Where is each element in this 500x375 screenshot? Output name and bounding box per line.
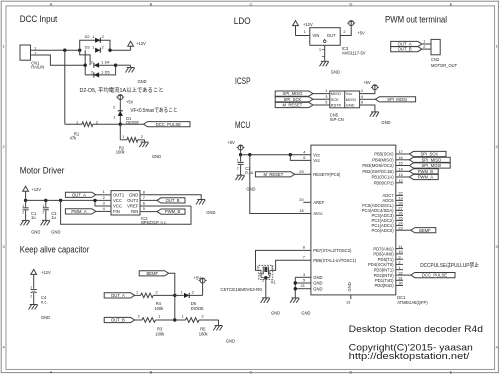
power +12V motor [23, 186, 42, 200]
svg-text:1: 1 [92, 44, 94, 49]
capacitor C3 1u [43, 200, 58, 220]
wire vcc pin6 step [290, 155, 311, 161]
node bridge right bottom [114, 63, 117, 66]
net label OUT_B keepalive [104, 317, 134, 322]
svg-text:1u: 1u [51, 215, 56, 220]
svg-text:SPI_MOSI: SPI_MOSI [387, 97, 407, 102]
regulator IC3 AMS1117 [310, 28, 366, 56]
svg-text:R3: R3 [157, 326, 163, 331]
svg-text:OUT_A: OUT_A [111, 293, 125, 298]
wire resonator gnd [265, 278, 267, 296]
net label M_RESET icsp [275, 102, 313, 107]
svg-text:CN2: CN2 [431, 57, 440, 62]
wire rst to CN5 [313, 100, 330, 105]
svg-text:+5V: +5V [363, 80, 371, 85]
svg-text:2: 2 [156, 289, 158, 294]
svg-text:+5V: +5V [194, 276, 202, 281]
svg-text:D: D [350, 1, 353, 6]
svg-text:2: 2 [30, 294, 32, 298]
svg-text:GND: GND [246, 187, 255, 192]
wire IC2 rin pin5 [140, 206, 157, 211]
node DCC pulse junction [119, 123, 122, 126]
svg-text:1: 1 [304, 29, 306, 34]
svg-text:2: 2 [202, 314, 204, 319]
node junction at R1 tap [63, 49, 66, 52]
svg-text:2: 2 [22, 211, 24, 215]
power +12V LDO [293, 21, 313, 36]
wire bridge step [80, 50, 90, 65]
svg-text:DCC_PULSE: DCC_PULSE [156, 122, 181, 127]
svg-text:3: 3 [303, 272, 305, 277]
svg-text:100k: 100k [199, 332, 209, 337]
wire outb to CN2 [422, 44, 431, 49]
wire R1 drop vertical [64, 50, 66, 124]
net label BEMF keepalive [139, 271, 168, 276]
svg-text:AMS1117-5V: AMS1117-5V [342, 50, 366, 55]
svg-text:+12V: +12V [303, 22, 313, 27]
svg-text:GND: GND [313, 286, 322, 291]
svg-text:D5: D5 [105, 69, 110, 74]
wire BEMF down [169, 273, 175, 295]
wire D3 to +12V node [110, 49, 131, 51]
power +5V LDO [347, 21, 365, 36]
node resonator gnd [264, 276, 267, 279]
svg-text:PB7(XTAL2/TOSC2): PB7(XTAL2/TOSC2) [313, 248, 352, 253]
svg-text:PD6(AIN0): PD6(AIN0) [373, 252, 394, 257]
svg-text:Vcc: Vcc [313, 158, 320, 163]
svg-text:1: 1 [101, 60, 103, 65]
svg-text:Desktop Station decoder R4d: Desktop Station decoder R4d [349, 324, 483, 334]
svg-text:GND: GND [129, 192, 138, 197]
ground R5 [213, 320, 235, 343]
svg-text:PD0(RxD): PD0(RxD) [375, 283, 395, 288]
wire CN1 pin1 to bridge [31, 49, 80, 51]
ground C3 [41, 218, 61, 234]
svg-text:GND: GND [381, 120, 390, 125]
svg-text:GND: GND [346, 103, 355, 108]
svg-text:RST#: RST# [331, 103, 342, 108]
svg-text:1: 1 [237, 158, 239, 162]
svg-text:23: 23 [398, 225, 402, 230]
svg-text:M_RESET: M_RESET [264, 172, 284, 177]
node mcu 5v bus [239, 153, 242, 156]
svg-text:13: 13 [398, 172, 402, 177]
net label PWM_A mcu [409, 174, 438, 179]
diode D5 [91, 69, 110, 77]
wire motor vcc bus [26, 199, 111, 201]
svg-text:GND: GND [51, 229, 60, 234]
svg-text:MISO: MISO [331, 91, 341, 96]
svg-text:PWM_B: PWM_B [165, 209, 181, 214]
svg-text:OUT2: OUT2 [127, 198, 139, 203]
svg-text:AREF: AREF [313, 200, 325, 205]
net label SPI_MISO icsp [275, 91, 313, 96]
svg-text:2: 2 [43, 211, 45, 215]
svg-text:SPI_MOSI: SPI_MOSI [422, 163, 442, 168]
wire CN5 mosi pin4 [360, 94, 376, 99]
svg-text:6: 6 [361, 100, 363, 105]
text copyright [349, 342, 473, 352]
svg-text:2: 2 [96, 120, 98, 125]
net label M_RESET mcu [255, 172, 294, 177]
svg-text:100k: 100k [155, 332, 165, 337]
wire R2 drop [119, 124, 121, 140]
svg-text:PD3(INT1): PD3(INT1) [374, 267, 395, 272]
svg-text:D2: D2 [85, 34, 90, 39]
ground R2 [139, 140, 161, 159]
svg-text:2: 2 [91, 60, 93, 65]
svg-text:13: 13 [346, 300, 350, 305]
svg-text:ISP-CN: ISP-CN [330, 117, 344, 122]
svg-text:2: 2 [262, 279, 264, 283]
svg-text:1: 1 [181, 289, 183, 294]
power +5V mcu [227, 140, 244, 155]
svg-text:1: 1 [76, 120, 78, 125]
svg-text:ATMEGA8(QFP): ATMEGA8(QFP) [397, 300, 428, 305]
svg-text:Vcc: Vcc [346, 91, 353, 96]
svg-text:GND: GND [271, 310, 280, 315]
svg-text:2: 2 [192, 289, 194, 294]
title Keep alive capacitor [20, 244, 90, 255]
svg-text:5: 5 [143, 206, 145, 211]
ground C1 [20, 218, 40, 234]
wire D2 loop [80, 40, 110, 50]
text url [349, 351, 470, 361]
net label SPI_SCK icsp [275, 97, 313, 102]
wire OUT_A to IC2 [96, 189, 111, 195]
svg-text:2: 2 [398, 260, 400, 265]
svg-text:1: 1 [43, 204, 45, 208]
svg-text:1: 1 [257, 266, 259, 270]
node avcc tap [248, 153, 251, 156]
pin AREF stub [299, 197, 311, 202]
net label SPI_MOSI icsp [375, 97, 415, 102]
svg-text:BEMF: BEMF [419, 228, 431, 233]
svg-text:OUT1: OUT1 [113, 192, 125, 197]
svg-text:+5V: +5V [126, 99, 134, 104]
svg-text:1u: 1u [31, 215, 36, 220]
text document title [349, 324, 483, 334]
svg-text:SPI_MISO: SPI_MISO [283, 91, 304, 96]
wire reset to mcu [295, 169, 311, 174]
svg-text:RIN: RIN [131, 209, 138, 214]
svg-text:PWM_B: PWM_B [418, 169, 434, 174]
svg-text:47k: 47k [70, 136, 78, 141]
power +12V bridge [128, 41, 146, 50]
svg-text:PD4(XCK/T0): PD4(XCK/T0) [368, 262, 394, 267]
svg-text:GND: GND [152, 154, 161, 159]
svg-text:6: 6 [143, 201, 145, 206]
title PWM out terminal [385, 14, 447, 25]
capacitor C1 1u [22, 200, 37, 220]
wire pin3 step [93, 199, 111, 206]
svg-text:n.c.: n.c. [41, 300, 48, 305]
power +12V keepalive [31, 269, 51, 275]
ground C4 [29, 302, 51, 320]
diode D3 inline [85, 44, 104, 53]
title Motor Driver [20, 165, 65, 176]
svg-text:PB1(OC1A): PB1(OC1A) [371, 175, 394, 180]
svg-text:11: 11 [398, 244, 402, 249]
wire D5 loop [85, 65, 115, 75]
svg-text:GND: GND [41, 315, 50, 320]
net label OUT_A motor [65, 192, 95, 197]
svg-text:VCC: VCC [113, 204, 122, 209]
node bridge right top [108, 49, 111, 52]
wire avcc [250, 155, 311, 214]
svg-text:GND: GND [313, 281, 322, 286]
svg-text:B: B [150, 370, 153, 375]
svg-text:2: 2 [141, 134, 143, 139]
wire CN5 vcc pin2 [360, 88, 375, 93]
mcu DC1 ATMEGA8 [311, 145, 428, 305]
svg-text:SCK: SCK [331, 97, 339, 102]
svg-text:100k: 100k [154, 306, 164, 311]
svg-text:GND: GND [331, 70, 340, 75]
wire CN5 gnd pin6 [360, 100, 375, 110]
svg-text:1: 1 [92, 34, 94, 39]
note DCC pullup [420, 261, 479, 269]
svg-text:2: 2 [237, 166, 239, 170]
svg-text:GND: GND [31, 229, 40, 234]
ground bridge [125, 65, 146, 84]
svg-text:+5V: +5V [227, 140, 235, 145]
svg-text:VCC: VCC [113, 198, 122, 203]
svg-text:MOTOR_OUT: MOTOR_OUT [431, 63, 458, 68]
svg-text:OUT_B: OUT_B [398, 47, 412, 52]
diode D1 [113, 102, 139, 125]
svg-text:A: A [50, 370, 53, 375]
svg-text:OUT: OUT [327, 33, 336, 38]
svg-text:PD7(AIN1): PD7(AIN1) [373, 246, 394, 251]
net label SPI_SCK mcu [409, 151, 446, 156]
svg-text:2: 2 [343, 29, 345, 34]
svg-text:8: 8 [143, 189, 145, 194]
svg-text:MCU: MCU [235, 120, 250, 131]
svg-text:C: C [250, 1, 253, 6]
mcu bottom gnd stub [346, 295, 351, 305]
net label SPI_MISO mcu [409, 157, 450, 162]
svg-text:2: 2 [91, 69, 93, 74]
svg-text:8: 8 [303, 245, 305, 250]
svg-text:DCC_PULSE: DCC_PULSE [422, 273, 447, 278]
svg-text:PWM_A: PWM_A [418, 175, 434, 180]
svg-text:PB4(MISO): PB4(MISO) [372, 158, 394, 163]
svg-text:PB5(SCK): PB5(SCK) [374, 152, 394, 157]
wire LDO gnd pin [319, 45, 325, 59]
svg-text:D4: D4 [105, 60, 111, 65]
svg-text:OUT_B: OUT_B [166, 198, 180, 203]
net label OUT_B pwmout [391, 47, 422, 52]
diode D2 [85, 34, 104, 43]
wire miso to CN5 [313, 88, 330, 93]
svg-text:D: D [350, 370, 353, 375]
svg-text:RESET#(PC6): RESET#(PC6) [313, 172, 341, 177]
svg-text:2: 2 [102, 44, 104, 49]
svg-text:15: 15 [398, 161, 402, 166]
svg-text:1: 1 [113, 115, 115, 120]
title DCC Input [20, 14, 58, 25]
net label OUT_A keepalive [104, 293, 134, 298]
svg-text:VF<0.5maxであること: VF<0.5maxであること [130, 107, 177, 114]
svg-text:3: 3 [271, 266, 273, 270]
svg-text:GND: GND [226, 338, 235, 343]
resistor R2 100k [116, 134, 145, 154]
svg-text:3: 3 [325, 94, 327, 99]
svg-text:2: 2 [102, 34, 104, 39]
svg-text:1: 1 [34, 45, 36, 50]
wire xtal2 pin8 [256, 245, 311, 271]
svg-text:Keep alive capacitor: Keep alive capacitor [20, 244, 90, 255]
capacitor C2 100n [237, 155, 253, 176]
svg-text:+12V: +12V [136, 41, 146, 46]
wire sck to CN5 [313, 94, 330, 99]
svg-text:+12V: +12V [31, 187, 41, 192]
svg-text:1: 1 [30, 286, 32, 290]
svg-text:PWM out terminal: PWM out terminal [385, 14, 447, 25]
svg-text:1: 1 [158, 314, 160, 319]
svg-text:GND: GND [301, 310, 310, 315]
svg-text:12: 12 [398, 178, 402, 183]
node bridge left top [78, 49, 81, 52]
svg-text:Vcc: Vcc [313, 152, 320, 157]
svg-text:100k: 100k [116, 149, 126, 154]
svg-text:B: B [150, 1, 153, 6]
svg-text:ICSP: ICSP [235, 76, 251, 87]
wire LDO vout [340, 28, 351, 36]
svg-text:OUT_B: OUT_B [111, 318, 125, 323]
node R4 D6 junction [173, 294, 176, 297]
wire mid junction vertical [174, 295, 176, 320]
title LDO [234, 16, 251, 27]
svg-text:D3: D3 [85, 44, 90, 49]
net label PWM_B motor [157, 209, 185, 214]
svg-text:1: 1 [122, 134, 124, 139]
svg-text:E: E [450, 370, 453, 375]
net label SPI_MOSI mcu [409, 163, 450, 168]
wire to DCC_PULSE tag [120, 123, 143, 125]
net label DCC_PULSE [144, 122, 191, 127]
wire LDO vin [296, 29, 310, 36]
resistor R3 100k [135, 314, 175, 337]
svg-text:PB6(XTAL1-in/TOSC1): PB6(XTAL1-in/TOSC1) [313, 258, 357, 263]
node R3 R5 junction [173, 318, 176, 321]
ic IC2 BP6Z31P [111, 191, 167, 226]
svg-text:+12V: +12V [41, 270, 51, 275]
svg-text:DCCPULSEはPULLUP禁止: DCCPULSEはPULLUP禁止 [420, 261, 479, 269]
wire PWM_A to IC2 [96, 206, 111, 212]
svg-text:BEMF: BEMF [146, 271, 158, 276]
svg-text:3: 3 [319, 48, 321, 52]
note VF max [130, 107, 177, 114]
svg-text:PB3(MOSI/OC2): PB3(MOSI/OC2) [362, 163, 394, 168]
net label PWM_A motor [65, 209, 95, 214]
ground IC2 [196, 197, 215, 215]
wire IC2 gnd pin8 [140, 189, 201, 197]
svg-text:GND: GND [206, 210, 215, 215]
net label PWM_B mcu [409, 169, 438, 174]
wire pin2 vcc [103, 195, 105, 200]
svg-text:7: 7 [143, 195, 145, 200]
svg-text:Motor Driver: Motor Driver [20, 165, 65, 176]
svg-text:GND: GND [347, 282, 352, 291]
node C1 top [24, 199, 27, 202]
ground LDO [320, 59, 340, 75]
svg-text:VIN: VIN [312, 33, 319, 38]
mcu PB pin stubs [396, 149, 410, 183]
svg-text:1: 1 [103, 189, 105, 194]
svg-text:PB0(ICP1): PB0(ICP1) [374, 181, 395, 186]
net label OUT_B motor [157, 198, 185, 203]
diode D4 [91, 60, 111, 68]
svg-text:VREF: VREF [127, 204, 139, 209]
diode D6 [175, 289, 204, 311]
svg-text:29: 29 [299, 169, 303, 174]
node vcc6 tap [289, 153, 292, 156]
wire mcu vcc bus [241, 150, 311, 155]
svg-text:DCC Input: DCC Input [20, 14, 58, 25]
power +5V D6 [194, 276, 207, 296]
svg-text:+5V: +5V [357, 30, 365, 35]
resistor R5 100k [175, 314, 219, 337]
svg-text:SPI_MISO: SPI_MISO [422, 157, 443, 162]
wire CN1 pin2 path [31, 55, 86, 65]
svg-text:LDO: LDO [234, 16, 251, 27]
svg-text:FIN: FIN [113, 209, 120, 214]
svg-text:2: 2 [113, 105, 115, 110]
svg-text:GND: GND [313, 275, 322, 280]
svg-text:OUT_A: OUT_A [72, 192, 86, 197]
svg-text:C5TCE16M0V53-R0: C5TCE16M0V53-R0 [220, 287, 262, 292]
title MCU [235, 120, 250, 131]
svg-text:R5: R5 [200, 326, 206, 331]
svg-text:2: 2 [361, 88, 363, 93]
resonator X1 CSTCE16M0V53 [220, 265, 276, 292]
net label DCC_PULSE mcu [411, 273, 455, 278]
svg-text:1: 1 [136, 289, 138, 294]
connector CN1 RAILIN [20, 45, 44, 70]
svg-text:E: E [450, 1, 453, 6]
connector CN5 ISP-CN [330, 91, 360, 122]
svg-text:A: A [50, 1, 53, 6]
wire bridge mid vertical [84, 50, 86, 75]
svg-text:AVcc: AVcc [313, 211, 322, 216]
svg-text:RAILIN: RAILIN [31, 65, 44, 70]
power +5V icsp [363, 80, 379, 92]
wire xtal1 pin7 [270, 254, 311, 270]
svg-text:17: 17 [398, 149, 402, 154]
wire mcu gnd pins [294, 272, 311, 296]
capacitor C4 nc [30, 275, 47, 305]
connector CN2 MOTOR_OUT [431, 39, 458, 67]
svg-text:M_RESET: M_RESET [283, 103, 303, 108]
svg-text:1: 1 [398, 265, 400, 270]
wire D4 row [99, 64, 116, 66]
svg-text:6: 6 [303, 155, 305, 160]
svg-text:X1: X1 [271, 280, 277, 285]
wire to bridge ground [116, 64, 131, 66]
svg-text:MOSI: MOSI [346, 97, 356, 102]
svg-text:2: 2 [138, 314, 140, 319]
svg-text:1: 1 [101, 69, 103, 74]
svg-text:16: 16 [398, 155, 402, 160]
wire outa to CN2 [422, 39, 431, 44]
power +5V at D1 [116, 95, 133, 105]
node VREF tap [59, 199, 62, 202]
svg-text:1: 1 [423, 39, 425, 44]
net label OUT_A pwmout [391, 41, 422, 46]
mcu PD pin stubs [396, 244, 411, 286]
